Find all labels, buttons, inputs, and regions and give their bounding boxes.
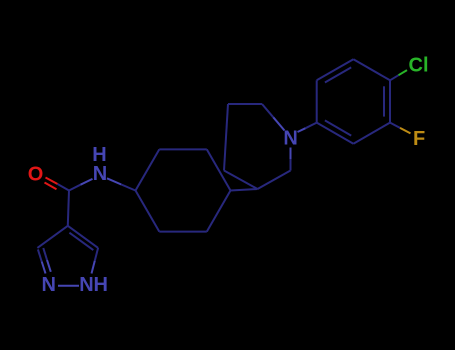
pyrazole ring: bond N1-N2 <box>58 285 79 287</box>
wire Cb-Cd <box>258 171 291 190</box>
wire Ce-TL (long left edge) <box>224 104 228 171</box>
wire TL-TR <box>159 148 207 150</box>
piperidine ring <box>224 104 291 189</box>
wire R-BR <box>207 191 231 232</box>
aromatic inner line 3 (parallel TL-T) <box>325 67 351 82</box>
svg-text:N: N <box>79 274 93 296</box>
bond amide N - hexagon L vertex <box>107 178 136 190</box>
wire T-TR <box>353 59 390 80</box>
bond ring N - aryl ipso BL <box>298 123 317 132</box>
pyrazole ring: bond C3-C4 <box>37 226 67 248</box>
cyclohexane ring (middle hexagon) <box>136 149 231 231</box>
wire L-TL <box>136 149 160 190</box>
pyrazole ring: bond C5-N1 <box>95 248 98 261</box>
wire BL-TL <box>316 80 318 122</box>
pyrazole ring: double bond C4=C5 <box>68 226 98 250</box>
wire BL-L <box>136 191 160 232</box>
wire TR-R <box>207 149 231 190</box>
svg-text:N: N <box>93 163 107 185</box>
wire TL-T <box>317 59 354 80</box>
svg-text:N: N <box>283 128 297 150</box>
wire B-BL <box>317 123 354 144</box>
pyrazole ring: double bond N2=C3 <box>38 248 51 274</box>
svg-text:Cl: Cl <box>409 55 429 77</box>
bond C1 - amide N <box>69 179 93 191</box>
svg-text:H: H <box>93 274 107 296</box>
wire Cd-Ce <box>224 171 258 190</box>
svg-text:O: O <box>28 164 44 186</box>
wire TR-BR <box>389 80 391 122</box>
svg-text:F: F <box>413 128 425 150</box>
wire ring N - Cb vertical (half blue near N) <box>290 148 292 160</box>
bond C4 to carbonyl C1 <box>68 190 69 226</box>
benzene ring (aryl, Cl/F substituted) <box>317 59 390 144</box>
bond BR - F <box>390 123 411 134</box>
wire TR - ring N (half blue near N) <box>262 104 273 117</box>
svg-text:N: N <box>41 274 55 296</box>
wire BR-B <box>353 123 390 144</box>
bond hexagon R - piperidine Cd <box>231 189 258 191</box>
carbonyl double bond C1=O <box>45 178 70 191</box>
aromatic inner line 2 (parallel B-BL) <box>325 120 351 135</box>
wire top edge TL-TR <box>228 103 262 105</box>
wire BR-BL <box>159 231 207 233</box>
bond TR - Cl <box>390 70 407 80</box>
aromatic inner line 1 (parallel TR-BR) <box>383 86 385 116</box>
